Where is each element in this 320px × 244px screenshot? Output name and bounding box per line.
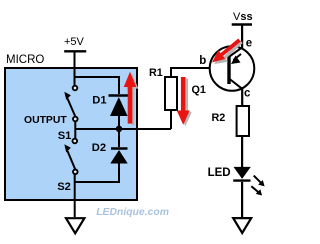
LED light arrows <box>251 176 264 196</box>
diode D1 <box>109 96 129 128</box>
switch S1 top terminal <box>73 86 78 91</box>
junction node dot <box>116 126 122 132</box>
red current arrow into emitter <box>212 39 243 65</box>
red current arrow down beside R1 <box>177 77 192 126</box>
svg-text:D1: D1 <box>92 94 106 106</box>
switch S1 lever <box>64 92 75 117</box>
svg-text:R2: R2 <box>212 112 226 124</box>
switch S2 top terminal <box>73 139 78 144</box>
Vss supply bar <box>232 23 252 25</box>
svg-text:LEDnique.com: LEDnique.com <box>96 207 169 218</box>
label MICRO <box>6 54 44 66</box>
svg-text:e: e <box>246 37 252 49</box>
label S1 <box>58 130 72 142</box>
svg-text:S1: S1 <box>58 130 72 142</box>
MICRO block box <box>5 68 137 200</box>
label S2 <box>57 181 71 193</box>
ground symbol (LED) <box>233 218 251 233</box>
red current arrow up beside D1 <box>124 72 139 125</box>
svg-text:+5V: +5V <box>64 36 85 48</box>
switch S1 bottom terminal (OUTPUT node) <box>73 117 78 122</box>
ground symbol (micro) <box>66 218 84 233</box>
svg-text:MICRO: MICRO <box>6 54 44 66</box>
diode D2 <box>110 129 127 164</box>
svg-text:b: b <box>199 55 206 67</box>
label OUTPUT <box>24 115 67 126</box>
svg-text:D2: D2 <box>92 142 106 154</box>
svg-text:S2: S2 <box>57 181 71 193</box>
transistor Q1 (PNP) <box>210 46 255 106</box>
label e <box>246 37 252 49</box>
label D1 <box>92 94 106 106</box>
switch S2 bottom terminal <box>73 170 78 175</box>
wire +5V branch to D1 <box>75 77 120 94</box>
label Q1 <box>192 84 206 96</box>
wire OUTPUT node to S2 <box>74 121 76 138</box>
label +5V <box>64 36 85 48</box>
svg-text:c: c <box>244 88 251 100</box>
wire OUTPUT line to R1 <box>75 128 171 130</box>
svg-text:LED: LED <box>208 167 231 179</box>
svg-text:Q1: Q1 <box>192 84 206 96</box>
svg-text:R1: R1 <box>149 67 163 79</box>
wire D2 anode to S2 wire <box>75 163 119 182</box>
resistor R2 <box>237 106 249 168</box>
label Vss <box>233 11 253 23</box>
label b <box>199 55 206 67</box>
label D2 <box>92 142 106 154</box>
+5V supply bar <box>64 50 86 52</box>
watermark LEDnique.com <box>96 207 169 218</box>
svg-text:Vss: Vss <box>233 11 253 23</box>
label c <box>244 88 251 100</box>
label LED <box>208 167 231 179</box>
resistor R1 <box>165 68 229 129</box>
wire +5V down into box <box>74 52 76 86</box>
wire S2 bottom to ground <box>74 174 76 217</box>
wire Vss to emitter <box>241 25 243 49</box>
label R2 <box>212 112 226 124</box>
svg-text:OUTPUT: OUTPUT <box>24 115 67 126</box>
switch S2 lever <box>64 144 75 170</box>
label R1 <box>149 67 163 79</box>
LED D3 <box>233 167 251 217</box>
